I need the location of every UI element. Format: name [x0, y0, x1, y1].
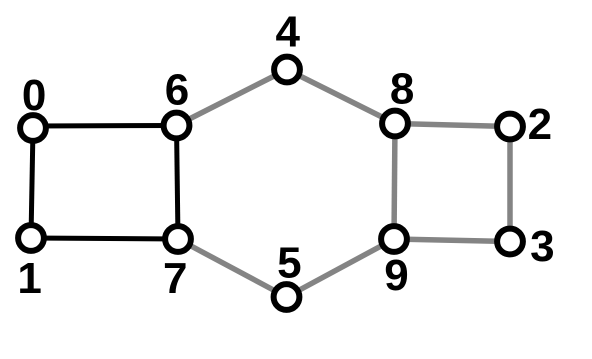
svg-text:6: 6 — [165, 66, 189, 115]
svg-text:9: 9 — [384, 251, 408, 300]
svg-text:0: 0 — [22, 71, 46, 120]
svg-text:7: 7 — [163, 254, 187, 303]
svg-text:1: 1 — [17, 254, 41, 303]
svg-text:3: 3 — [530, 222, 554, 271]
svg-text:8: 8 — [390, 64, 414, 113]
svg-text:5: 5 — [277, 238, 301, 287]
svg-text:4: 4 — [276, 8, 301, 57]
svg-text:2: 2 — [528, 100, 552, 149]
